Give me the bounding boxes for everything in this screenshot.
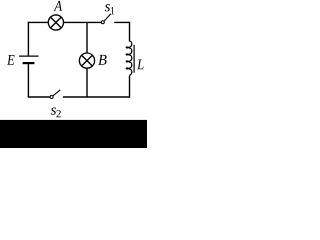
lamp B bbox=[79, 53, 94, 68]
wire top-left: corner to lamp A bbox=[28, 21, 48, 24]
wire left lower: battery to bottom corner bbox=[27, 63, 29, 97]
switch s1 bbox=[101, 14, 111, 24]
wire top-right: switch s1 to right corner bbox=[114, 21, 130, 23]
wire right lower: inductor to bottom corner bbox=[129, 76, 131, 98]
label L (inductor) bbox=[137, 59, 144, 69]
wire middle branch upper: top wire down to lamp B bbox=[86, 22, 88, 52]
black bar (bottom banner) bbox=[0, 120, 147, 148]
label B (lamp B) bbox=[98, 55, 106, 65]
wire top-middle: lamp A to switch s1 bbox=[64, 21, 102, 23]
label s1 bbox=[105, 4, 110, 11]
wire left upper: corner down to battery bbox=[27, 22, 29, 56]
wire middle branch lower: lamp B down to bottom wire bbox=[86, 69, 88, 98]
label s2 bbox=[51, 108, 56, 115]
wire right upper: corner down to inductor bbox=[129, 22, 131, 42]
label A (lamp A) bbox=[54, 1, 63, 11]
wire bottom-left: corner to switch s2 bbox=[28, 96, 50, 98]
label E (battery) bbox=[7, 55, 15, 65]
inductor core line bbox=[133, 45, 135, 73]
battery E bbox=[19, 56, 38, 63]
lamp A bbox=[48, 15, 63, 30]
wire bottom-right: switch s2 to right corner bbox=[63, 96, 130, 98]
switch s2 bbox=[50, 90, 60, 99]
inductor L coil bbox=[126, 41, 132, 76]
